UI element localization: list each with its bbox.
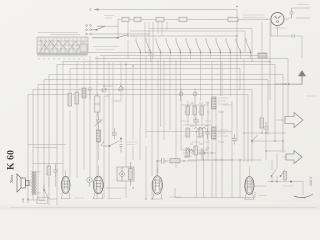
svg-text:K 60: K 60 — [7, 150, 17, 170]
capacitor C11 bottom left — [53, 165, 58, 177]
IF transformer T1 primary coil — [212, 97, 217, 109]
label marks detector cluster — [181, 121, 211, 142]
wire top rail — [90, 8, 237, 19]
wire right low verticals — [272, 153, 277, 182]
switch S7 mid right — [251, 135, 257, 142]
wire dial-lamp rail — [118, 20, 268, 39]
wire heater run bottom — [28, 188, 255, 200]
junction dots agc — [156, 160, 184, 161]
wire bus line 7 — [33, 90, 252, 201]
junction dots top — [127, 6, 270, 63]
antenna selector switch S1 — [92, 26, 105, 30]
wire bus line 4 — [49, 75, 283, 206]
padder stack box — [95, 92, 101, 116]
wire bus line 6 — [38, 73, 302, 200]
choke Dr1 on dial rail — [156, 17, 164, 22]
resistor R12 squiggle detector — [186, 149, 197, 152]
capacitor C12 detector row2 — [205, 128, 210, 139]
resistor R8 IF cluster — [200, 106, 203, 115]
wire bus line 3 — [57, 65, 275, 206]
wire magic eye drop — [271, 19, 302, 58]
connector pair antenna — [275, 83, 290, 85]
wire IF section frame — [181, 62, 232, 198]
resistor R16 detector row2 — [199, 128, 202, 137]
label above coil pack — [38, 33, 80, 35]
wire V2 anode link — [106, 187, 126, 189]
tube top-cap connector G2 — [193, 89, 197, 101]
label IF transformer values — [218, 98, 228, 136]
capacitor C6 IF cluster — [193, 117, 199, 126]
trimmer capacitor C4 mid — [119, 87, 124, 91]
label 0,1uF — [127, 142, 137, 145]
loudspeaker LS bottom-left — [17, 174, 29, 192]
page bottom edge shading — [0, 206, 320, 211]
terminal box bottom left — [37, 198, 48, 204]
loudspeaker arrow connector 2 — [286, 151, 302, 164]
resistor R4 left column — [68, 93, 71, 106]
tube V4 ECL11 — [245, 167, 254, 200]
wire oscillator rail 1 — [150, 29, 252, 53]
junction dots right — [243, 132, 283, 152]
tube V1 AZ11 — [61, 170, 70, 198]
title text Nora K 60 — [7, 150, 17, 183]
label 220V vertical — [309, 176, 313, 186]
coil pack bottom hatched strip — [37, 54, 88, 57]
resistor R6 IF cluster — [186, 106, 189, 115]
wire top right link — [292, 8, 311, 18]
variable capacitor C3 — [95, 116, 103, 130]
junction dots mid — [103, 52, 146, 87]
junction dots detector row — [196, 131, 241, 161]
capacitor C8 agc (pair) — [157, 158, 168, 164]
label 100pF right — [306, 95, 315, 97]
IF transformer T1 secondary coil — [212, 127, 217, 139]
capacitor C9 right of magic eye — [290, 8, 294, 18]
wire left low horizontals — [28, 145, 66, 148]
svg-text:Nora: Nora — [9, 174, 14, 183]
wire detector row y153 — [183, 152, 216, 154]
switch S6 bottom right — [280, 170, 285, 177]
label Wellenschalter — [93, 47, 119, 50]
capacitor C13 near V4 — [232, 134, 237, 145]
trimmer capacitor C2 — [102, 88, 107, 92]
magic eye tube EM11 — [266, 13, 289, 26]
resistor R7 IF cluster — [193, 106, 196, 115]
wire bus line 5 — [44, 80, 268, 201]
wire vertical drops from switch bank — [141, 49, 251, 127]
wire x237 drop — [236, 36, 238, 141]
resistor R5 left column — [75, 92, 78, 104]
wire bus line 2 — [100, 56, 262, 71]
loudspeaker arrow connector 1 — [285, 113, 303, 128]
wire bus line 2b — [63, 62, 270, 101]
choke Dr2 on dial rail — [179, 17, 187, 22]
antenna input terminals — [86, 25, 92, 35]
label EM11 — [274, 27, 286, 29]
wire bus line 2c — [70, 69, 240, 91]
wire bus line 8 — [28, 95, 248, 201]
antenna symbol — [299, 71, 306, 84]
band switch contact bank — [136, 38, 251, 53]
wire speaker to transformer — [29, 172, 41, 193]
switch S5 bottom right — [271, 170, 276, 177]
component box ws on bus — [258, 53, 267, 58]
label EBF11 — [170, 196, 182, 198]
junction dots heater row — [132, 187, 152, 199]
wire left column verticals — [63, 56, 113, 198]
oscillator coil box — [117, 162, 134, 186]
wire oscillator rail 2 — [130, 31, 245, 53]
ground / chassis swoosh — [294, 194, 313, 198]
resistor R15 detector row2 — [186, 128, 189, 137]
svg-text:220 V: 220 V — [309, 176, 313, 186]
label ECH11 — [107, 198, 121, 200]
capacitor C1 left column — [88, 88, 92, 100]
wire mid column verticals — [121, 53, 176, 199]
cluster value labels overlay — [184, 103, 224, 157]
resistor R2 on dial rail — [134, 17, 141, 22]
wire bottom left links — [33, 164, 63, 188]
resistor R10 below IF — [186, 148, 189, 157]
coil pack / band-switch matrix L-block — [37, 37, 88, 53]
label a. Skala — [104, 16, 114, 19]
switch S4 bottom left — [43, 185, 49, 199]
resistor R17 detector row3 — [194, 146, 197, 155]
wire antenna row — [92, 26, 150, 34]
wire detector vertical pair — [146, 62, 262, 198]
tube top-cap connector G1 — [179, 89, 183, 101]
wire antenna link — [291, 83, 302, 85]
pickup terminals bottom left — [22, 199, 28, 203]
coil L3 left column — [97, 130, 101, 142]
label under mains row — [283, 185, 294, 187]
junction dots detector row2 — [204, 152, 212, 153]
capacitor C10 right column — [264, 122, 269, 133]
resistor R11 agc horizontal — [170, 159, 180, 163]
wire verticals top-mid — [128, 20, 270, 63]
tube V3 EBF11 — [152, 168, 162, 199]
coil pack terminal ticks — [39, 58, 84, 60]
junction dot mains — [271, 181, 292, 183]
resistor R13 right column — [260, 118, 263, 128]
wire speaker stubs — [275, 120, 286, 157]
label 0,05 agc — [184, 155, 192, 157]
wire agc row — [157, 161, 197, 176]
coil L2 left column — [82, 88, 86, 98]
wire right row y141 — [240, 133, 286, 198]
switch S3 with capacitor mid-low — [101, 138, 123, 153]
label right top — [297, 4, 309, 6]
resistor R9 squiggle — [194, 127, 206, 130]
wire mid horizontal links — [104, 86, 121, 101]
resistor R14 bottom left — [47, 166, 50, 175]
tube V2 ECH11 — [93, 165, 103, 198]
wire right column verticals — [244, 59, 283, 162]
wire mains row — [268, 182, 303, 196]
label AZ11 — [74, 197, 84, 199]
resistor R3 on dial rail — [228, 17, 238, 22]
capacitor C5 mid-low — [112, 128, 117, 139]
resistor R18 right low — [284, 172, 287, 181]
wire bus line 2a — [95, 59, 288, 117]
output transformer T2 — [32, 171, 37, 195]
wire lower antenna row continuation — [138, 35, 237, 37]
capacitor C7 below IF — [199, 148, 205, 159]
label 6.3V right of V4 — [258, 195, 267, 197]
resistor R1 on dial rail — [122, 17, 129, 22]
wire bus line 1 — [88, 53, 252, 63]
label uber Skalenlampen — [243, 15, 265, 18]
phono jack J1 — [87, 177, 92, 186]
switch S2 on lower antenna row — [92, 35, 138, 39]
